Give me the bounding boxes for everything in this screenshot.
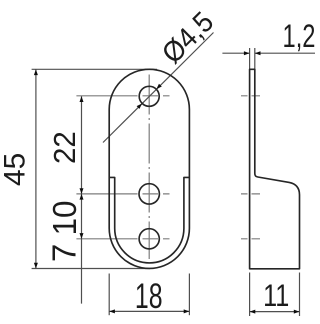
svg-text:45: 45 [0, 153, 32, 186]
svg-text:10: 10 [46, 201, 83, 236]
svg-text:1,2: 1,2 [283, 18, 316, 53]
svg-text:18: 18 [135, 278, 163, 316]
svg-text:11: 11 [263, 279, 289, 314]
svg-text:22: 22 [48, 131, 82, 164]
svg-text:7: 7 [46, 244, 83, 262]
